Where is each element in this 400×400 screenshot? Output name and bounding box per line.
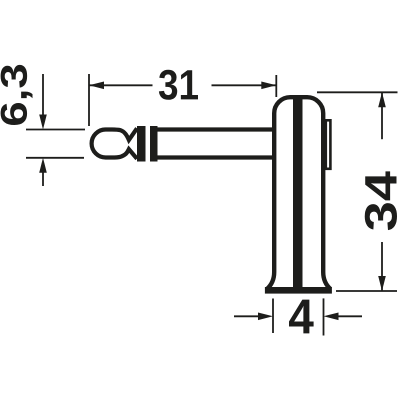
dim 31: right arrowhead — [261, 82, 276, 90]
dim 31: label — [159, 70, 198, 100]
dim 34: dimension line lower segment — [381, 242, 383, 291]
dim 4: left extension line — [272, 299, 274, 334]
dim 34: dimension line upper segment — [381, 92, 383, 139]
dim 31: dimension line left segment — [89, 84, 153, 86]
shaft top line — [157, 127, 274, 131]
side latch rectangle — [326, 120, 331, 169]
dim 6,3: lower leader line — [42, 172, 44, 186]
dim 34: bottom arrowhead pointing down — [378, 276, 386, 291]
plug tip bulb and groove — [92, 128, 137, 158]
dim 6,3: upper leader line — [42, 74, 44, 116]
dim 6,3: label (rotated) — [1, 65, 33, 125]
dim 6,3: upper arrowhead pointing down — [39, 115, 47, 130]
dim 34: bottom extension line — [336, 290, 397, 292]
body middle bar — [293, 98, 303, 290]
dim 6,3: top extension line — [26, 129, 85, 131]
dim 34: top arrowhead pointing up — [378, 92, 386, 107]
dim 4: left arrowhead pointing right — [258, 313, 273, 321]
body outline with top dome and bottom flare — [267, 97, 331, 289]
dim 6,3: lower arrowhead pointing up — [39, 158, 47, 173]
dim 31: dimension line right segment — [212, 84, 277, 86]
shaft bottom line — [157, 155, 274, 159]
body base bar — [265, 287, 332, 294]
dim 31: right extension line — [275, 75, 277, 97]
dim 4: label — [289, 300, 314, 334]
dim 4: right extension line — [323, 298, 325, 335]
dim 31: left arrowhead — [89, 82, 104, 90]
tip insulator ring bar 2 — [150, 126, 158, 162]
dim 6,3: bottom extension line — [26, 157, 84, 159]
tip insulator ring bar 1 — [137, 126, 146, 162]
dim 34: label (rotated) — [365, 171, 397, 230]
dim 4: left leader line — [234, 315, 259, 317]
dim 4: right arrowhead pointing left — [324, 313, 339, 321]
dim 31: left extension line — [88, 74, 90, 126]
dim 34: top extension line — [317, 91, 398, 93]
dim 4: right leader line — [339, 315, 363, 317]
